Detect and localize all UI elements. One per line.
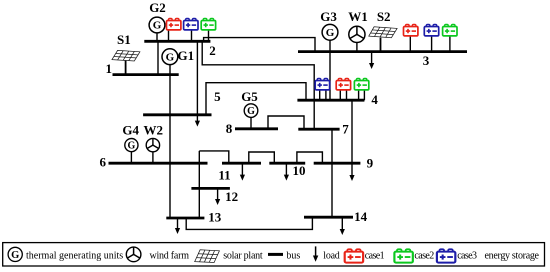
svg-text:14: 14 [354, 209, 368, 224]
svg-text:2: 2 [209, 43, 216, 58]
legend battery case3 [437, 249, 455, 262]
wire line 7-9 + line 9-14 [331, 129, 333, 217]
wire G5 stem [250, 117, 252, 128]
bus 9 [314, 162, 361, 165]
wire G4 stem [130, 152, 132, 164]
wire battery leg case1 bus3 [409, 35, 411, 52]
load bus12 arrowhead [215, 199, 220, 205]
wind turbine W1 [349, 26, 365, 42]
bus 11 [222, 162, 261, 165]
svg-text:10: 10 [293, 163, 306, 178]
bus 12 [191, 187, 230, 190]
wire bus14 load shaft [341, 217, 343, 229]
bus 3 [298, 50, 467, 53]
wire battery leg case3 bus2 [191, 30, 193, 41]
svg-text:bus: bus [286, 250, 300, 261]
svg-text:G: G [11, 250, 19, 261]
generator G3 [322, 24, 338, 40]
wire S2 stand [380, 38, 382, 52]
battery case1 bus3 [404, 24, 418, 36]
wire W1 stem [356, 42, 358, 51]
wire line 13-14 [186, 217, 312, 229]
generator G2 [149, 17, 165, 33]
svg-text:W2: W2 [143, 123, 163, 138]
svg-text:12: 12 [225, 189, 238, 204]
svg-text:8: 8 [226, 121, 233, 136]
wire W2 stem [152, 152, 154, 164]
svg-text:G: G [326, 27, 335, 39]
svg-text:S1: S1 [117, 32, 131, 47]
svg-text:G: G [128, 140, 136, 151]
svg-text:11: 11 [218, 167, 230, 182]
legend bus symbol [268, 253, 283, 256]
wire G1 stem + line 1-5 + line 5-6 + line 6-13 [169, 64, 171, 218]
svg-text:G: G [166, 51, 175, 63]
svg-text:W1: W1 [348, 9, 368, 24]
wire battery leg case2 bus2 [208, 30, 210, 41]
legend battery case1 [345, 249, 363, 262]
svg-text:7: 7 [342, 121, 349, 136]
wire bus11 load shaft [241, 163, 243, 175]
svg-text:wind farm: wind farm [150, 250, 190, 261]
svg-text:S2: S2 [377, 9, 391, 24]
wire G2 stem [156, 33, 158, 42]
svg-text:5: 5 [214, 89, 221, 104]
wire line 4-5 [206, 83, 306, 115]
load bus5 arrowhead [195, 121, 200, 127]
bus 6 [109, 162, 208, 165]
svg-text:solar plant: solar plant [223, 250, 263, 261]
generator G1 [162, 49, 178, 65]
wire line 6-11 vertical + line 6-12 + line 12-13 [198, 151, 200, 218]
wire battery leg case2 bus3 [449, 35, 451, 52]
load bus3 arrowhead [369, 63, 374, 69]
bus 4 [297, 99, 364, 102]
svg-text:1: 1 [105, 61, 112, 76]
bus 7 [298, 128, 339, 131]
load bus13 arrowhead [175, 228, 180, 234]
wire G3 stem + line 3-4 [329, 40, 331, 100]
svg-text:case3: case3 [457, 250, 477, 261]
battery case3 bus4 [315, 78, 329, 90]
wire line 9-10 bridge [297, 152, 323, 163]
svg-text:4: 4 [371, 92, 378, 107]
bus 8 [235, 127, 278, 130]
battery case3 bus2 [184, 18, 198, 30]
bus 1 [113, 73, 179, 76]
load bus11 arrowhead [240, 175, 245, 181]
wire battery leg case3 bus3 [431, 35, 433, 52]
svg-text:9: 9 [367, 155, 374, 170]
wire line 4-9 with bus9 load shaft [351, 100, 353, 175]
wire line 6-11 bridge [199, 151, 229, 163]
bus 5 [143, 113, 211, 116]
wire line 7-8 [268, 116, 304, 129]
wire bus3 load shaft [371, 52, 373, 64]
wind turbine W2 [146, 138, 159, 151]
legend solar plant symbol [195, 250, 220, 263]
svg-text:case2: case2 [414, 250, 434, 261]
wire battery legs case2 bus4 [359, 90, 365, 100]
generator G4 [125, 139, 138, 152]
svg-text:G3: G3 [320, 9, 337, 24]
bus 10 [269, 162, 305, 165]
svg-text:G2: G2 [149, 0, 166, 15]
bus 14 [304, 216, 353, 219]
svg-text:G: G [153, 20, 162, 32]
load bus9 arrowhead [349, 175, 354, 181]
svg-text:load: load [323, 250, 340, 261]
svg-text:6: 6 [100, 155, 107, 170]
wire battery legs case1 bus4 [340, 90, 346, 100]
solar plant S2 [369, 27, 397, 38]
legend box [3, 243, 545, 266]
wire line 10-11 bridge [249, 152, 274, 163]
wire bus13 load shaft [177, 218, 179, 229]
battery case2 bus2 [201, 18, 215, 30]
wire line 2-4 + line 4-7 [202, 41, 314, 129]
svg-text:G5: G5 [241, 89, 258, 104]
svg-text:thermal generating units: thermal generating units [26, 250, 123, 261]
svg-text:13: 13 [208, 210, 222, 225]
wire battery leg case1 bus2 [168, 30, 170, 41]
wire bus12 load shaft [217, 188, 219, 199]
battery case2 bus4 [354, 78, 368, 90]
legend battery case2 [394, 249, 412, 262]
load bus14 arrowhead [340, 229, 345, 235]
solar plant S1 [112, 50, 140, 61]
wire line 2-5 with bus5 load shaft [196, 41, 198, 121]
svg-text:G4: G4 [122, 123, 139, 138]
battery case1 bus2 [167, 18, 181, 30]
battery case3 bus3 [424, 24, 438, 36]
svg-text:G1: G1 [178, 48, 195, 63]
load bus10 arrowhead [284, 175, 289, 181]
bus 2 [144, 40, 210, 43]
wire line 2-3 [204, 38, 315, 52]
svg-text:G: G [247, 106, 255, 117]
generator G5 [244, 104, 258, 118]
wire bus10 load shaft [285, 163, 287, 175]
battery case1 bus4 [336, 78, 350, 90]
svg-text:3: 3 [423, 53, 430, 68]
legend thermal generator symbol [8, 247, 22, 261]
battery case2 bus3 [443, 24, 457, 36]
svg-text:energy storage: energy storage [485, 250, 540, 261]
wire line 1-2 [157, 41, 159, 74]
bus 13 [166, 217, 204, 220]
legend load symbol [313, 246, 318, 261]
legend wind farm symbol [126, 247, 141, 262]
wire S1 stand [125, 60, 127, 74]
wire battery legs case3 bus4 [320, 90, 326, 100]
svg-text:case1: case1 [365, 250, 385, 261]
